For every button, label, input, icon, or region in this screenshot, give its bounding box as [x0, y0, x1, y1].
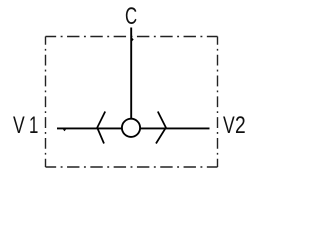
shuttle ball (circle)	[122, 119, 140, 137]
enclosure boundary (dash-dot box) top edge	[46, 36, 218, 38]
enclosure boundary bottom edge	[46, 166, 218, 168]
wire: port line V2 (right segment)	[141, 127, 210, 129]
enclosure boundary left edge	[45, 37, 47, 168]
junction tick on pilot line C	[132, 38, 134, 41]
port label V1	[13, 114, 25, 138]
wire: pilot line from port C down to shuttle ball	[130, 28, 132, 119]
right valve seat chevron	[156, 112, 166, 144]
left valve seat chevron	[97, 112, 105, 144]
junction tick on line V1	[63, 129, 66, 131]
port label C	[125, 5, 137, 29]
wire: port line V1 (left segment)	[57, 127, 122, 129]
port label V2	[223, 114, 235, 138]
enclosure boundary right edge	[217, 37, 219, 168]
